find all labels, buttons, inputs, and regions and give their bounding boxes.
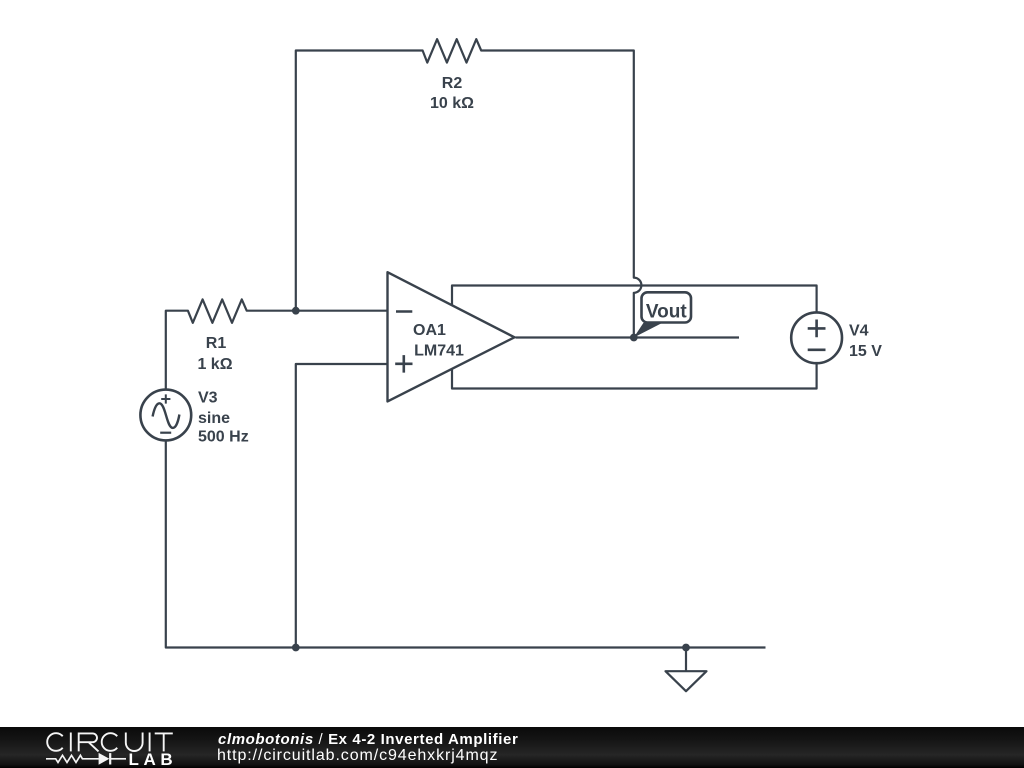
svg-text:LAB: LAB: [129, 750, 178, 768]
svg-text:15 V: 15 V: [849, 343, 882, 360]
svg-text:500 Hz: 500 Hz: [198, 429, 249, 446]
svg-text:V4: V4: [849, 322, 869, 339]
svg-text:OA1: OA1: [413, 322, 446, 339]
svg-text:10 kΩ: 10 kΩ: [430, 95, 474, 112]
svg-text:sine: sine: [198, 410, 230, 427]
svg-text:LM741: LM741: [414, 342, 464, 359]
svg-text:1 kΩ: 1 kΩ: [197, 356, 232, 373]
svg-text:R2: R2: [442, 75, 463, 92]
svg-text:R1: R1: [206, 335, 227, 352]
svg-text:V3: V3: [198, 390, 218, 407]
svg-text:Vout: Vout: [646, 302, 687, 323]
